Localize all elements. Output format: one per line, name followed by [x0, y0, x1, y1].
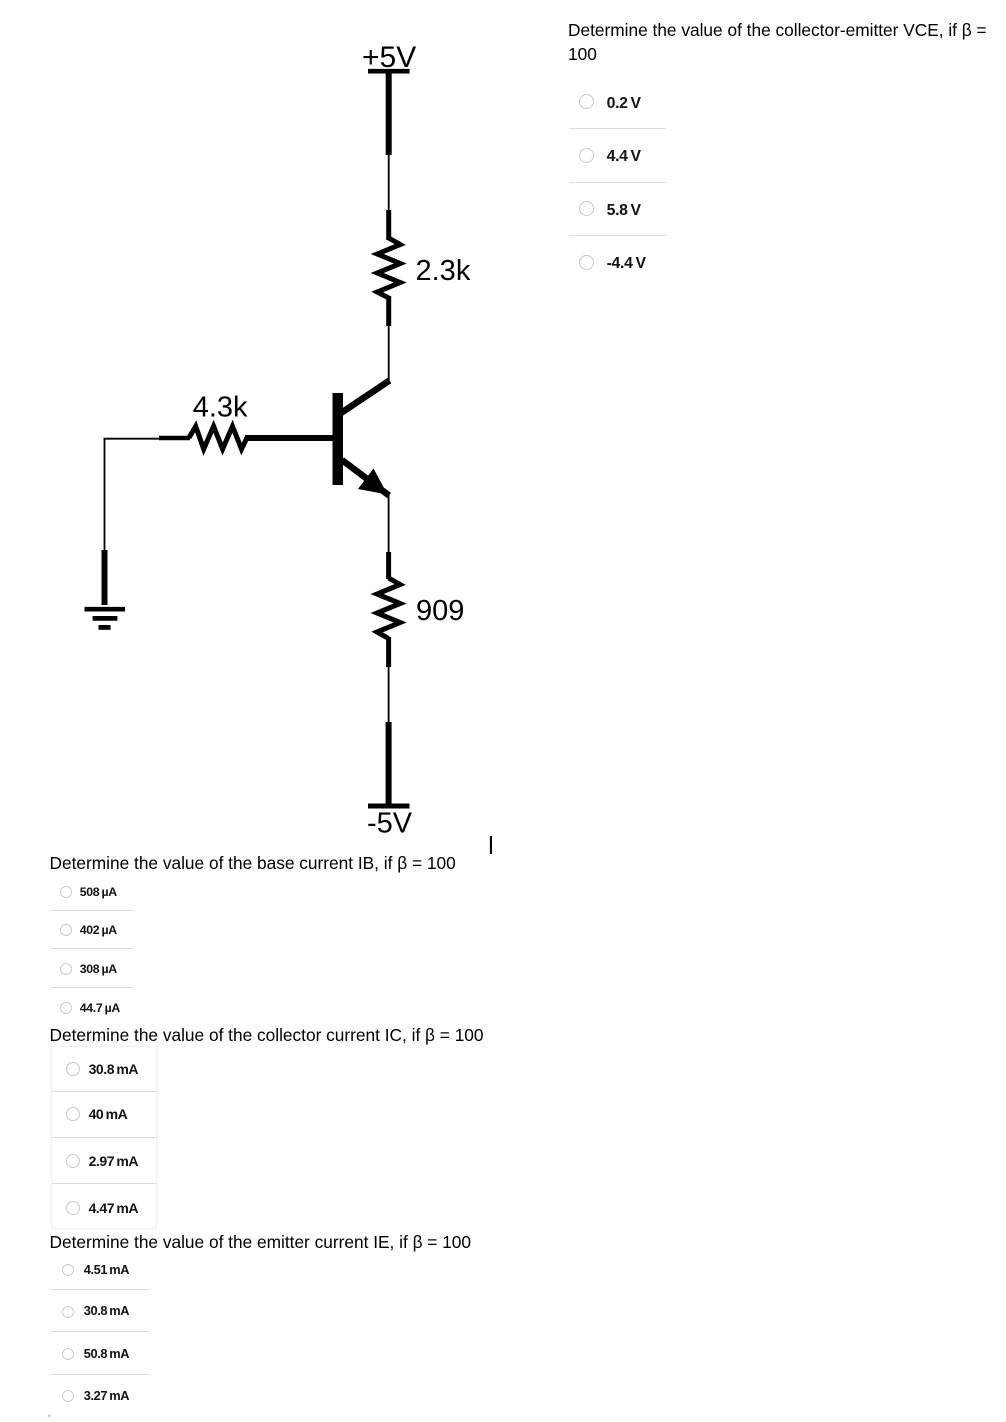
question IB separator 2: [50, 948, 133, 949]
question IE option 2 radio: [62, 1306, 74, 1318]
question IC option 4 label: [89, 1201, 138, 1215]
question IC option 1 label: [89, 1062, 138, 1076]
resistor RC 2.3k bottom lead: [386, 296, 391, 326]
question IC heading: [50, 1023, 484, 1047]
question IE separator 2: [50, 1331, 149, 1332]
question IB option 3 radio: [60, 963, 72, 975]
resistor RC 2.3k top lead: [386, 210, 391, 240]
question IE separator 3: [50, 1374, 149, 1375]
question IB option 3 label: [80, 963, 117, 975]
resistor RB 4.3k left lead: [159, 436, 190, 441]
ground bar 1: [85, 607, 126, 612]
question IC option 3 radio: [66, 1154, 80, 1168]
transistor Q1 base bar: [333, 393, 344, 485]
supply +5V bar: [368, 69, 410, 74]
question VCE separator 3: [569, 235, 666, 236]
question VCE separator 1: [569, 128, 666, 129]
question IB option 2 radio: [60, 924, 72, 936]
question IC option 4 radio: [66, 1201, 80, 1215]
question VCE option 4 label: [607, 256, 646, 272]
question IE option 1 radio: [62, 1264, 74, 1276]
wire collector thin: [388, 154, 390, 212]
transistor Q1 collector diagonal: [341, 381, 390, 414]
question IE option 3 radio: [62, 1348, 74, 1360]
question IC option 3 label: [89, 1154, 138, 1168]
question IE heading: [50, 1230, 472, 1254]
wire collector thin to transistor: [388, 324, 390, 381]
svg-text:-5V: -5V: [367, 808, 413, 840]
question IE option 4 radio: [62, 1390, 74, 1402]
question IC separator 3: [52, 1183, 157, 1184]
transistor Q1 emitter arrow: [358, 469, 388, 495]
question IB heading: [50, 851, 456, 875]
question IB separator 1: [50, 910, 133, 911]
question IE option 4 label: [84, 1390, 129, 1403]
wire ground vertical thick: [102, 550, 108, 605]
question IE option 2 label: [84, 1305, 129, 1318]
question VCE separator 2: [569, 182, 666, 183]
resistor RB 4.3k zigzag: [189, 426, 247, 449]
question IC options box: [51, 1046, 157, 1229]
question IC option 2 label: [89, 1107, 128, 1121]
resistor RE 909 top lead: [386, 552, 391, 579]
question VCE option 3 radio: [579, 201, 594, 216]
question VCE option 4 radio: [579, 255, 594, 270]
question VCE heading: [568, 18, 987, 66]
resistor RC 2.3k zigzag: [377, 238, 400, 298]
svg-text:2.3k: 2.3k: [416, 255, 471, 287]
question VCE option 1 radio: [579, 94, 594, 109]
svg-text:4.3k: 4.3k: [193, 392, 248, 424]
wire emitter thick to -5V: [386, 722, 392, 804]
question IE option 1 label: [84, 1264, 129, 1277]
question IB option 2 label: [80, 924, 117, 936]
question IC separator 1: [52, 1091, 157, 1092]
question IB option 1 label: [80, 886, 117, 898]
question IB option 4 radio: [60, 1002, 72, 1014]
question IC separator 2: [52, 1137, 157, 1138]
question IE option 3 label: [84, 1348, 129, 1361]
supply -5V bar: [368, 804, 410, 809]
question IB option 4 label: [80, 1002, 120, 1014]
question IC option 2 radio: [66, 1107, 80, 1121]
question IB option 1 radio: [60, 886, 72, 898]
ground bar 2: [93, 616, 118, 621]
wire base thick: [245, 435, 334, 441]
transistor Q1 emitter diagonal: [342, 460, 389, 496]
question VCE option 2 radio: [579, 148, 594, 163]
resistor RE 909 zigzag: [377, 578, 400, 639]
wire base thin horizontal: [104, 438, 160, 440]
wire emitter thin: [388, 494, 390, 554]
wire emitter thin lower: [388, 665, 390, 723]
svg-text:909: 909: [416, 595, 464, 627]
question VCE option 1 label: [607, 96, 641, 112]
wire ground vertical thin: [104, 438, 106, 551]
wire collector thick from +5V: [386, 70, 392, 155]
resistor RE 909 bottom lead: [386, 637, 391, 667]
stray dot bottom left: [48, 1415, 51, 1418]
svg-text:+5V: +5V: [362, 41, 416, 74]
question VCE option 2 label: [607, 149, 641, 165]
question VCE option 3 label: [607, 203, 641, 219]
question IC option 1 radio: [66, 1062, 80, 1076]
question IB separator 3: [50, 987, 133, 988]
question IE separator 1: [50, 1289, 149, 1290]
text cursor caret: [490, 836, 492, 854]
ground bar 3: [99, 625, 111, 630]
